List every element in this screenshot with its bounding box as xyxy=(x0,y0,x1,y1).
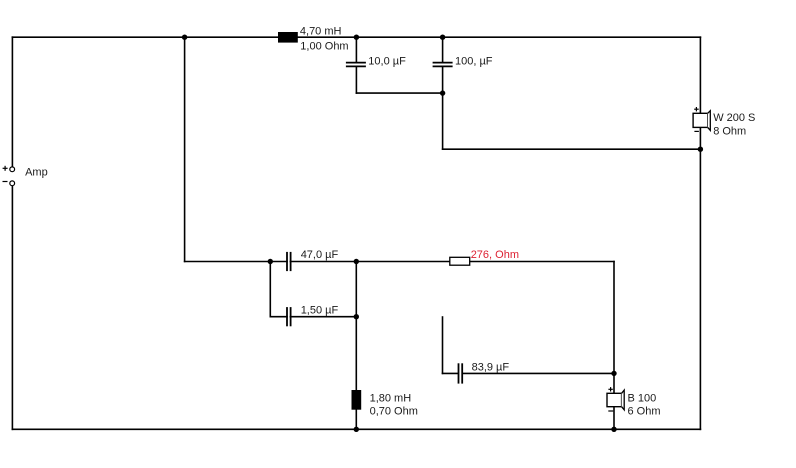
node dot C2 top xyxy=(440,35,445,40)
svg-text:6 Ohm: 6 Ohm xyxy=(628,405,661,417)
wire left rail upper xyxy=(11,37,13,167)
inductor L2 1,80 mH xyxy=(352,390,362,410)
wire C2 bottom lead xyxy=(442,67,444,93)
wire down to B100 xyxy=(613,262,615,394)
amp positive terminal xyxy=(3,166,15,172)
svg-text:47,0 µF: 47,0 µF xyxy=(301,249,339,261)
node dot C3 left xyxy=(268,259,273,264)
svg-text:W 200 S: W 200 S xyxy=(713,112,755,124)
node dot C4 right xyxy=(354,314,359,319)
wire L2 to bottom rail xyxy=(355,410,357,430)
wire bottom rail xyxy=(12,428,700,430)
node dot C3 right xyxy=(354,259,359,264)
capacitor C3 47,0 uF xyxy=(287,252,291,271)
wire R1 to right corner xyxy=(470,261,614,263)
node dot B100 bottom xyxy=(611,427,616,432)
svg-text:0,70 Ohm: 0,70 Ohm xyxy=(370,405,418,417)
svg-text:B 100: B 100 xyxy=(628,392,657,404)
wire node down to L2 xyxy=(355,262,357,391)
svg-text:100, µF: 100, µF xyxy=(455,55,493,67)
node dot A top-mid junction xyxy=(182,35,187,40)
amp negative terminal xyxy=(3,181,15,186)
wire mid horizontal to C3 xyxy=(185,261,287,263)
capacitor C5 83,9 uF xyxy=(459,363,463,383)
wire C5 right lead xyxy=(463,372,614,374)
wire C1 bottom lead xyxy=(355,67,357,93)
wire C3 C4 left connector xyxy=(269,262,271,317)
wire shunt to speaker return xyxy=(443,148,701,150)
wire right rail upper xyxy=(699,37,701,113)
svg-text:83,9 µF: 83,9 µF xyxy=(472,362,510,374)
svg-text:1,00 Ohm: 1,00 Ohm xyxy=(300,40,348,52)
wire C5 left lead xyxy=(443,372,458,374)
svg-text:4,70 mH: 4,70 mH xyxy=(300,25,342,37)
wire to C4 xyxy=(270,316,287,318)
svg-text:1,80 mH: 1,80 mH xyxy=(370,393,412,405)
node dot C1 top xyxy=(354,35,359,40)
wire C4 to node xyxy=(290,316,356,318)
wire C1 top lead xyxy=(355,37,357,62)
svg-text:276, Ohm: 276, Ohm xyxy=(471,249,519,261)
capacitor C1 10,0 uF xyxy=(346,63,366,67)
wire mid vertical xyxy=(184,37,186,261)
node dot C5 right xyxy=(611,371,616,376)
wire cap bank connector xyxy=(356,92,442,94)
resistor R1 276 Ohm xyxy=(450,257,470,265)
capacitor C4 1,50 uF xyxy=(287,307,291,326)
wire C5 stub xyxy=(442,317,444,373)
wire left rail lower xyxy=(11,186,13,430)
capacitor C2 100, uF xyxy=(433,63,453,67)
node dot speaker return xyxy=(698,147,703,152)
svg-text:10,0 µF: 10,0 µF xyxy=(368,55,406,67)
node dot C2 bottom xyxy=(440,90,445,95)
wire top rail xyxy=(12,36,700,38)
svg-text:8 Ohm: 8 Ohm xyxy=(713,126,746,138)
wire C2 top lead xyxy=(442,37,444,62)
speaker U2 B 100 xyxy=(607,387,624,411)
wire shunt down xyxy=(442,93,444,149)
inductor L1 4,70 mH xyxy=(278,32,298,43)
svg-text:1,50 µF: 1,50 µF xyxy=(301,304,339,316)
wire right rail lower xyxy=(699,127,701,429)
svg-text:Amp: Amp xyxy=(25,166,48,178)
wire C3 to R1 xyxy=(290,261,449,263)
wire B100 to bottom rail xyxy=(613,407,615,430)
speaker U1 W 200 S xyxy=(693,107,710,131)
node dot L2 bottom xyxy=(354,427,359,432)
